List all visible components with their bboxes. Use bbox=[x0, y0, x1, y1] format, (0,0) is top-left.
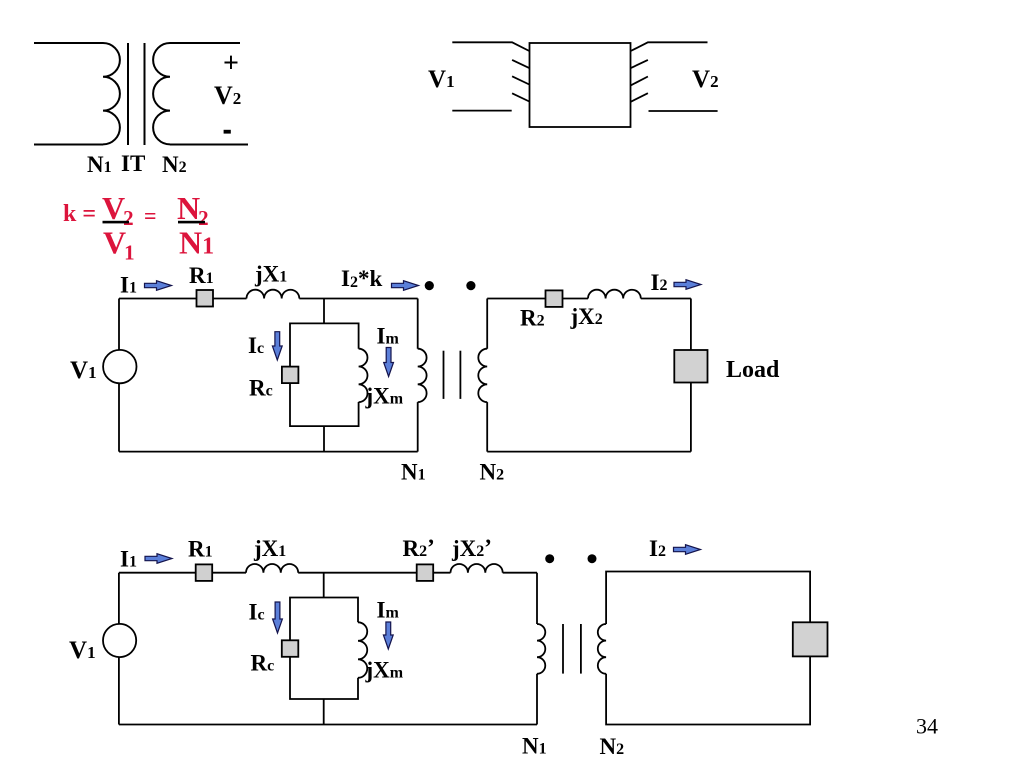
coupling dot secondary (bottom) bbox=[588, 554, 597, 563]
svg-text:I1: I1 bbox=[120, 273, 137, 298]
wire top (secondary) bbox=[487, 298, 588, 300]
transformer primary vertical (bottom) bbox=[536, 573, 538, 725]
svg-text:I2: I2 bbox=[649, 536, 666, 561]
wire top after coil bbox=[299, 298, 417, 300]
shunt parallel rectangle bbox=[290, 323, 359, 426]
svg-text:N2: N2 bbox=[480, 460, 505, 485]
svg-text:V1: V1 bbox=[70, 357, 97, 384]
fraction bar 2 bbox=[178, 221, 205, 224]
wire shunt trunk top (bottom) bbox=[323, 573, 325, 598]
wire top (bottom primary) bbox=[119, 572, 246, 574]
wire primary bottom bbox=[34, 144, 103, 146]
inductor jX1 coil bbox=[247, 290, 300, 299]
arrow I2*k bbox=[392, 281, 419, 291]
svg-text:V1: V1 bbox=[428, 66, 455, 93]
svg-text:Rc: Rc bbox=[249, 376, 273, 401]
svg-text:Im: Im bbox=[377, 324, 400, 349]
wire bottom (secondary) bbox=[487, 451, 691, 453]
core line right (middle transformer) bbox=[459, 351, 461, 399]
svg-text:Ic: Ic bbox=[248, 333, 264, 358]
wire V2 top bbox=[631, 42, 708, 51]
svg-text:Load: Load bbox=[726, 357, 780, 383]
arrow Im (bottom) bbox=[383, 622, 393, 649]
inductor jX1 coil (bottom) bbox=[246, 564, 298, 573]
resistor R1 box bbox=[197, 290, 214, 307]
wire shunt trunk bottom bbox=[323, 426, 325, 452]
svg-text:=: = bbox=[144, 203, 157, 228]
core line right bbox=[144, 43, 146, 145]
svg-text:N1: N1 bbox=[401, 460, 426, 485]
svg-text:N2: N2 bbox=[162, 152, 187, 177]
svg-text:N2: N2 bbox=[600, 734, 625, 759]
svg-text:V2: V2 bbox=[214, 81, 241, 110]
svg-text:k =: k = bbox=[63, 201, 96, 227]
wire shunt trunk bottom (bottom) bbox=[323, 699, 325, 725]
fraction bar 1 bbox=[103, 221, 130, 224]
svg-text:R2: R2 bbox=[520, 306, 545, 331]
svg-text:Rc: Rc bbox=[251, 651, 275, 676]
wire shunt trunk top bbox=[323, 299, 325, 324]
source V1 circle (bottom) bbox=[103, 624, 136, 657]
inductor jX2' coil (bottom) bbox=[451, 564, 503, 573]
wire V1 top bbox=[452, 42, 529, 51]
wire primary top bbox=[34, 42, 103, 44]
arrow I2 (bottom) bbox=[674, 545, 701, 555]
winding hatch left 1 bbox=[512, 60, 529, 68]
wire bottom (primary) bbox=[119, 451, 418, 453]
arrow Im (middle) bbox=[384, 348, 394, 377]
svg-text:R1: R1 bbox=[188, 537, 213, 562]
svg-text:N1: N1 bbox=[87, 152, 112, 177]
coupling dot primary (middle) bbox=[425, 281, 434, 290]
coupling dot primary (bottom) bbox=[545, 554, 554, 563]
wire top (primary) bbox=[119, 298, 247, 300]
transformer primary coil (bottom) bbox=[537, 624, 545, 674]
transformer box bbox=[530, 43, 631, 127]
coupling dot secondary (middle) bbox=[466, 281, 475, 290]
wire secondary top bbox=[170, 42, 240, 44]
core line left bbox=[127, 43, 129, 145]
wire right vertical (secondary) bbox=[690, 299, 692, 452]
winding hatch right 2 bbox=[631, 77, 648, 86]
svg-text:I2*k: I2*k bbox=[341, 266, 382, 291]
resistor Rc box (bottom) bbox=[282, 640, 299, 657]
svg-text:R1: R1 bbox=[189, 263, 214, 288]
arrow I1 (middle) bbox=[145, 281, 172, 291]
svg-text:I1: I1 bbox=[120, 547, 137, 572]
svg-text:jX2: jX2 bbox=[570, 304, 603, 329]
winding primary (left coil of IT) bbox=[103, 43, 120, 144]
inductor jXm coil (middle) bbox=[359, 349, 368, 402]
svg-text:N1: N1 bbox=[179, 225, 214, 261]
wire left vertical (bottom primary) bbox=[118, 573, 120, 725]
load box (bottom) bbox=[793, 622, 828, 656]
svg-text:N1: N1 bbox=[522, 734, 547, 759]
winding secondary (right coil of IT) bbox=[153, 43, 170, 144]
transformer secondary coil (middle) bbox=[478, 349, 487, 402]
winding hatch right 1 bbox=[631, 60, 648, 68]
core line left (middle transformer) bbox=[443, 351, 445, 399]
inductor jX2 coil bbox=[588, 290, 641, 299]
svg-text:V1: V1 bbox=[69, 637, 96, 664]
core line right (bottom transformer) bbox=[580, 624, 582, 674]
core line left (bottom transformer) bbox=[562, 624, 564, 674]
wire secondary loop (bottom) bbox=[606, 572, 810, 725]
svg-text:V2: V2 bbox=[692, 66, 719, 93]
wire top middle (bottom) bbox=[298, 572, 450, 574]
svg-text:jXm: jXm bbox=[365, 384, 404, 409]
resistor R1 box (bottom) bbox=[196, 564, 213, 581]
svg-text:34: 34 bbox=[916, 714, 938, 739]
shunt parallel rectangle (bottom) bbox=[290, 598, 358, 700]
transformer primary vertical wire bbox=[417, 299, 419, 452]
svg-text:IT: IT bbox=[121, 151, 145, 176]
inductor jXm coil (bottom) bbox=[358, 622, 367, 678]
svg-text:jX2’: jX2’ bbox=[451, 535, 492, 561]
source V1 circle bbox=[103, 350, 136, 383]
arrow I2 (middle) bbox=[674, 280, 701, 290]
svg-text:+: + bbox=[223, 48, 239, 79]
svg-text:Ic: Ic bbox=[249, 600, 265, 625]
arrow Ic (middle) bbox=[272, 332, 282, 360]
wire left vertical (primary loop) bbox=[118, 299, 120, 452]
load box (middle) bbox=[674, 350, 707, 383]
resistor Rc box (middle) bbox=[282, 367, 299, 384]
winding hatch left 3 bbox=[512, 93, 529, 101]
resistor R2' box (bottom) bbox=[417, 564, 434, 581]
svg-text:jX1: jX1 bbox=[254, 262, 287, 287]
wire secondary bottom bbox=[170, 144, 248, 146]
transformer primary coil (middle) bbox=[418, 349, 427, 402]
svg-text:jXm: jXm bbox=[365, 658, 404, 683]
wire top secondary right bbox=[641, 298, 691, 300]
winding hatch right 3 bbox=[631, 93, 648, 102]
arrow I1 (bottom) bbox=[145, 554, 172, 564]
resistor R2 box bbox=[546, 290, 563, 307]
wire V1 bottom bbox=[452, 110, 511, 112]
svg-text:I2: I2 bbox=[651, 270, 668, 295]
winding hatch left 2 bbox=[512, 76, 529, 84]
wire bottom (bottom primary) bbox=[119, 724, 537, 726]
svg-text:jX1: jX1 bbox=[253, 536, 286, 561]
arrow Ic (bottom) bbox=[273, 602, 283, 633]
label minus bbox=[224, 130, 231, 134]
transformer secondary vertical wire bbox=[486, 299, 488, 452]
wire V2 bottom bbox=[649, 110, 718, 112]
svg-text:R2’: R2’ bbox=[403, 535, 435, 561]
svg-text:V1: V1 bbox=[103, 225, 135, 265]
transformer secondary coil (bottom) bbox=[598, 624, 606, 674]
wire top right (bottom) bbox=[503, 572, 537, 574]
svg-text:Im: Im bbox=[377, 598, 400, 623]
